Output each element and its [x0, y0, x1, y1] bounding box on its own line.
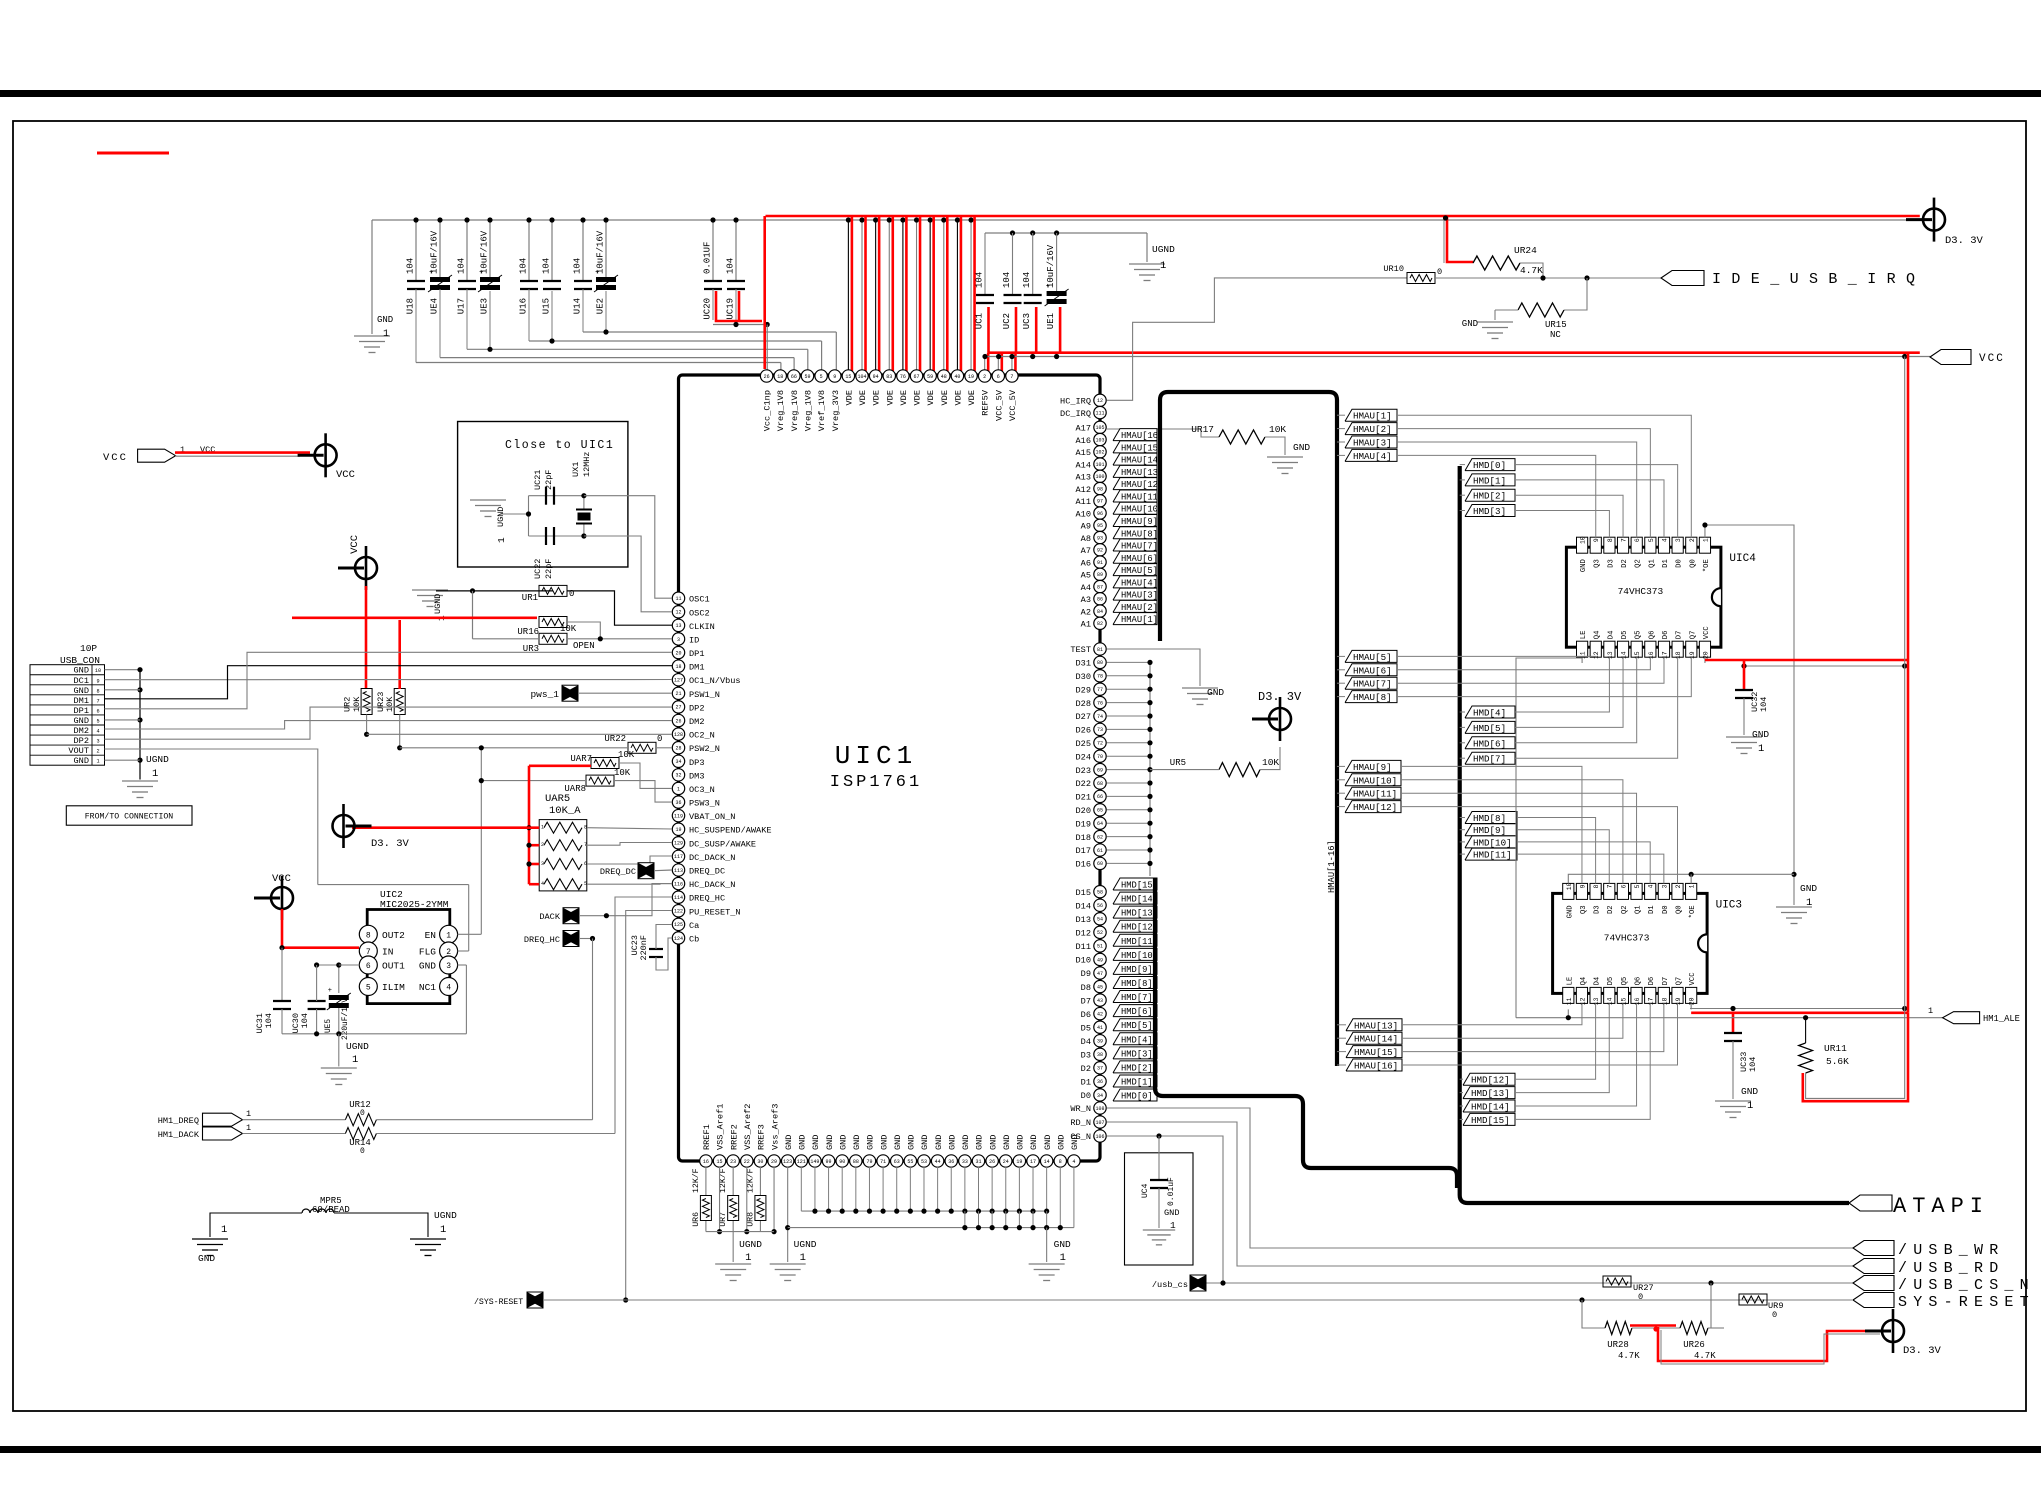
svg-text:2: 2 [983, 374, 986, 380]
svg-text:A4: A4 [1081, 583, 1091, 593]
svg-text:80: 80 [1097, 660, 1103, 666]
svg-text:HMD[9]: HMD[9] [1473, 825, 1506, 836]
svg-text:9: 9 [833, 374, 836, 380]
svg-text:15: 15 [1634, 651, 1641, 659]
svg-text:HMAU[15]: HMAU[15] [1121, 443, 1163, 453]
svg-text:2: 2 [1675, 884, 1682, 888]
svg-text:1: 1 [1928, 1006, 1933, 1016]
svg-text:99: 99 [826, 1159, 832, 1165]
svg-text:UGND: UGND [433, 594, 443, 614]
svg-text:PSW2_N: PSW2_N [689, 744, 720, 754]
svg-text:149: 149 [810, 1159, 819, 1165]
svg-text:UGND: UGND [739, 1239, 762, 1250]
svg-text:GND: GND [74, 756, 89, 766]
svg-text:DM3: DM3 [689, 771, 704, 781]
svg-text:DM2: DM2 [689, 717, 704, 727]
svg-text:13: 13 [1593, 997, 1600, 1005]
svg-text:D14: D14 [1076, 901, 1091, 911]
svg-text:UR15: UR15 [1545, 320, 1567, 330]
svg-text:UR26: UR26 [1683, 1340, 1705, 1350]
svg-text:D2: D2 [1081, 1064, 1091, 1074]
svg-text:22pF: 22pF [544, 559, 554, 579]
svg-text:FROM/TO CONNECTION: FROM/TO CONNECTION [85, 812, 174, 822]
svg-text:D28: D28 [1076, 699, 1091, 709]
svg-text:OSC1: OSC1 [689, 595, 710, 605]
svg-text:HMAU[2]: HMAU[2] [1353, 424, 1392, 435]
svg-text:Q4: Q4 [1594, 631, 1602, 640]
svg-text:UR6: UR6 [692, 1212, 701, 1227]
svg-text:GND: GND [1293, 442, 1310, 453]
svg-text:0: 0 [657, 734, 662, 744]
svg-text:HMAU[14]: HMAU[14] [1354, 1034, 1398, 1045]
svg-text:DM1: DM1 [689, 663, 704, 673]
svg-text:DACK: DACK [539, 912, 560, 922]
svg-text:VSS_Aref1: VSS_Aref1 [716, 1104, 726, 1150]
svg-text:49: 49 [1097, 957, 1103, 963]
svg-text:Q0: Q0 [1676, 905, 1684, 914]
svg-text:Vref_1V8: Vref_1V8 [817, 390, 827, 431]
svg-text:PU_RESET_N: PU_RESET_N [689, 907, 741, 917]
svg-text:HMD[13]: HMD[13] [1121, 909, 1158, 919]
svg-text:D0: D0 [1676, 559, 1684, 568]
svg-text:78: 78 [1097, 674, 1103, 680]
svg-text:D23: D23 [1076, 766, 1091, 776]
svg-text:11: 11 [1566, 997, 1573, 1005]
svg-text:0: 0 [1772, 1310, 1777, 1320]
svg-text:1: 1 [496, 537, 507, 543]
svg-text:6: 6 [366, 962, 371, 971]
svg-text:A6: A6 [1081, 558, 1091, 568]
svg-text:3: 3 [677, 637, 680, 643]
svg-text:12MHz: 12MHz [582, 451, 592, 477]
svg-text:1: 1 [1702, 538, 1709, 542]
svg-text:6: 6 [584, 861, 587, 867]
svg-text:A11: A11 [1076, 497, 1091, 507]
svg-text:UR2: UR2 [343, 697, 353, 712]
svg-text:DREQ_HC: DREQ_HC [689, 894, 725, 904]
svg-text:GND: GND [811, 1135, 821, 1150]
svg-text:VDE: VDE [940, 390, 950, 405]
svg-text:HM1_ALE: HM1_ALE [1983, 1014, 2020, 1024]
svg-text:HC_IRQ: HC_IRQ [1060, 397, 1091, 407]
svg-text:GND: GND [1566, 905, 1574, 918]
svg-text:pws_1: pws_1 [530, 689, 559, 700]
svg-text:D6: D6 [1081, 1010, 1091, 1020]
svg-text:VSS_Aref2: VSS_Aref2 [743, 1104, 753, 1150]
svg-text:GND: GND [1029, 1135, 1039, 1150]
svg-text:10K: 10K [560, 624, 577, 634]
svg-text:94: 94 [873, 374, 879, 380]
svg-text:LE: LE [1566, 977, 1574, 986]
svg-text:60/BEAD: 60/BEAD [312, 1205, 350, 1215]
svg-text:HMAU[12]: HMAU[12] [1353, 802, 1397, 813]
svg-text:D16: D16 [1076, 860, 1091, 870]
svg-text:7: 7 [584, 842, 587, 848]
svg-text:76: 76 [900, 374, 906, 380]
svg-text:8: 8 [96, 688, 99, 694]
svg-text:GND: GND [975, 1135, 985, 1150]
svg-text:42: 42 [1097, 1011, 1103, 1017]
svg-text:/USB_RD: /USB_RD [1898, 1260, 2004, 1277]
svg-text:HMAU[16]: HMAU[16] [1354, 1061, 1398, 1072]
svg-text:UGND: UGND [434, 1210, 457, 1221]
svg-text:HMAU[3]: HMAU[3] [1121, 591, 1158, 601]
svg-text:3: 3 [446, 962, 451, 971]
svg-text:Close to UIC1: Close to UIC1 [505, 439, 614, 452]
svg-text:14: 14 [1621, 651, 1628, 659]
svg-text:Ca: Ca [689, 921, 699, 931]
svg-text:95: 95 [1097, 523, 1103, 529]
svg-text:1: 1 [246, 1109, 251, 1119]
svg-text:D5: D5 [1607, 977, 1615, 986]
svg-text:5: 5 [820, 374, 823, 380]
svg-text:GND: GND [377, 315, 393, 325]
svg-text:0: 0 [1437, 267, 1442, 277]
svg-text:VCC: VCC [1703, 626, 1711, 640]
svg-text:51: 51 [1097, 944, 1103, 950]
svg-text:DP2: DP2 [74, 736, 89, 746]
svg-text:UE2: UE2 [596, 298, 606, 314]
svg-text:29: 29 [771, 1159, 777, 1165]
svg-text:104: 104 [542, 258, 552, 274]
svg-text:D1: D1 [1081, 1078, 1091, 1088]
svg-text:GND: GND [74, 686, 89, 696]
svg-text:*OE: *OE [1703, 559, 1711, 572]
svg-text:58: 58 [1097, 890, 1103, 896]
svg-text:Cb: Cb [689, 934, 699, 944]
svg-text:1: 1 [1060, 1252, 1066, 1264]
svg-text:20: 20 [1689, 997, 1696, 1005]
svg-text:HMD[3]: HMD[3] [1473, 506, 1506, 517]
svg-text:Vreg_3V3: Vreg_3V3 [831, 390, 841, 431]
svg-text:92: 92 [1097, 548, 1103, 554]
svg-text:73: 73 [1097, 727, 1103, 733]
svg-text:1: 1 [96, 759, 99, 765]
svg-text:66: 66 [1097, 794, 1103, 800]
svg-text:113: 113 [674, 868, 683, 874]
svg-text:97: 97 [1097, 499, 1103, 505]
svg-text:GND: GND [1800, 883, 1817, 894]
svg-text:Vcc_C1np: Vcc_C1np [763, 390, 773, 431]
svg-text:DC_IRQ: DC_IRQ [1060, 409, 1091, 419]
svg-text:DP1: DP1 [74, 706, 89, 716]
svg-text:UE5: UE5 [325, 1019, 333, 1033]
svg-text:12: 12 [1097, 398, 1103, 404]
svg-text:121: 121 [797, 1159, 806, 1165]
svg-text:VDE: VDE [953, 390, 963, 405]
svg-text:ID: ID [689, 635, 699, 645]
svg-text:HMAU[15]: HMAU[15] [1354, 1047, 1398, 1058]
svg-text:+: + [328, 987, 332, 995]
svg-text:D3: D3 [1607, 559, 1615, 568]
svg-text:GND: GND [893, 1135, 903, 1150]
svg-text:D0: D0 [1662, 905, 1670, 914]
svg-text:10: 10 [1566, 882, 1573, 890]
svg-text:U18: U18 [406, 298, 416, 314]
svg-text:3: 3 [1661, 884, 1668, 888]
svg-text:D5: D5 [1621, 631, 1629, 640]
svg-text:UR10: UR10 [1383, 264, 1404, 274]
svg-text:GND: GND [1580, 559, 1588, 572]
svg-text:1: 1 [246, 1123, 251, 1133]
svg-text:122: 122 [674, 909, 683, 915]
svg-text:HMAU[9]: HMAU[9] [1121, 517, 1158, 527]
svg-text:VCC_5V: VCC_5V [1008, 389, 1018, 421]
svg-text:HMAU[1]: HMAU[1] [1121, 615, 1158, 625]
svg-text:14: 14 [1607, 997, 1614, 1005]
svg-text:71: 71 [880, 1159, 886, 1165]
svg-text:HMD[4]: HMD[4] [1473, 708, 1506, 719]
svg-text:8: 8 [366, 931, 371, 940]
svg-text:VDE: VDE [872, 390, 882, 405]
svg-text:A2: A2 [1081, 607, 1091, 617]
svg-text:43: 43 [1097, 998, 1103, 1004]
svg-text:10K: 10K [352, 696, 362, 712]
svg-text:26: 26 [675, 718, 681, 724]
svg-text:UAR7: UAR7 [570, 754, 592, 764]
svg-text:D3: D3 [1594, 905, 1602, 914]
svg-text:1: 1 [677, 786, 680, 792]
svg-text:56: 56 [1097, 903, 1103, 909]
svg-text:3: 3 [1675, 538, 1682, 542]
svg-text:TEST: TEST [1070, 645, 1091, 655]
svg-text:18: 18 [1661, 997, 1668, 1005]
svg-text:8: 8 [1593, 884, 1600, 888]
svg-text:26: 26 [989, 1159, 995, 1165]
svg-text:16: 16 [703, 1159, 709, 1165]
svg-text:UC1: UC1 [975, 313, 985, 329]
svg-text:17: 17 [1648, 997, 1655, 1005]
svg-text:36: 36 [1097, 1079, 1103, 1085]
svg-text:D6: D6 [1648, 977, 1656, 986]
svg-text:A13: A13 [1076, 473, 1091, 483]
svg-text:74VHC373: 74VHC373 [1618, 586, 1664, 597]
svg-text:4: 4 [1662, 538, 1669, 542]
svg-text:D5: D5 [1081, 1023, 1091, 1033]
svg-text:1: 1 [1758, 743, 1764, 755]
svg-text:D7: D7 [1676, 631, 1684, 640]
svg-text:Q3: Q3 [1580, 905, 1588, 914]
svg-text:VBAT_ON_N: VBAT_ON_N [689, 812, 735, 822]
svg-text:8: 8 [1607, 538, 1614, 542]
svg-text:D19: D19 [1076, 819, 1091, 829]
svg-text:HMAU[5]: HMAU[5] [1353, 652, 1392, 663]
svg-text:220nF: 220nF [639, 935, 649, 961]
svg-text:D10: D10 [1076, 956, 1091, 966]
svg-text:U14: U14 [573, 298, 583, 314]
svg-text:HMD[14]: HMD[14] [1471, 1102, 1510, 1113]
svg-text:D17: D17 [1076, 846, 1091, 856]
svg-text:A14: A14 [1076, 460, 1091, 470]
svg-text:GND: GND [798, 1135, 808, 1150]
svg-text:18: 18 [777, 374, 783, 380]
svg-text:A1: A1 [1081, 620, 1091, 630]
svg-text:SYS-RESET: SYS-RESET [1898, 1294, 2035, 1311]
svg-text:19: 19 [968, 374, 974, 380]
svg-text:0.01UF: 0.01UF [703, 242, 713, 274]
svg-text:3: 3 [541, 861, 544, 867]
svg-text:HMAU[13]: HMAU[13] [1121, 468, 1163, 478]
svg-text:1: 1 [152, 768, 158, 780]
svg-text:HMAU[11]: HMAU[11] [1353, 789, 1397, 800]
svg-text:UC2: UC2 [1002, 313, 1012, 329]
svg-text:HMAU[7]: HMAU[7] [1121, 542, 1158, 552]
svg-text:86: 86 [1097, 597, 1103, 603]
svg-text:A9: A9 [1081, 522, 1091, 532]
svg-text:22pF: 22pF [544, 470, 554, 490]
svg-text:GND: GND [1002, 1135, 1012, 1150]
svg-text:119: 119 [674, 813, 683, 819]
svg-text:63: 63 [894, 1159, 900, 1165]
svg-text:22: 22 [744, 1159, 750, 1165]
svg-text:4: 4 [446, 984, 451, 993]
svg-text:104: 104 [406, 258, 416, 274]
svg-text:A15: A15 [1076, 448, 1091, 458]
svg-text:PSW1_N: PSW1_N [689, 690, 720, 700]
svg-text:61: 61 [1097, 848, 1103, 854]
svg-text:10K: 10K [1262, 757, 1279, 768]
svg-text:GND: GND [852, 1135, 862, 1150]
svg-text:DP3: DP3 [689, 758, 704, 768]
svg-text:VDE: VDE [926, 390, 936, 405]
svg-text:DM2: DM2 [74, 726, 89, 736]
svg-text:21: 21 [675, 691, 681, 697]
svg-text:124: 124 [674, 936, 683, 942]
svg-text:13: 13 [1607, 651, 1614, 659]
svg-text:VDE: VDE [858, 390, 868, 405]
svg-text:12K/F: 12K/F [691, 1168, 701, 1193]
svg-text:68: 68 [1097, 781, 1103, 787]
svg-text:DREQ_DC: DREQ_DC [600, 867, 636, 877]
svg-text:10uF/16V: 10uF/16V [480, 230, 490, 274]
svg-text:19: 19 [1689, 651, 1696, 659]
svg-text:FLG: FLG [419, 947, 436, 958]
svg-text:62: 62 [1097, 834, 1103, 840]
svg-text:125: 125 [674, 922, 683, 928]
svg-text:88: 88 [853, 1159, 859, 1165]
svg-text:Q4: Q4 [1580, 977, 1588, 986]
svg-text:36: 36 [675, 800, 681, 806]
svg-text:87: 87 [1097, 584, 1103, 590]
svg-text:53: 53 [921, 1159, 927, 1165]
svg-text:UIC4: UIC4 [1729, 553, 1756, 565]
svg-text:8: 8 [584, 825, 587, 831]
svg-text:47: 47 [1097, 971, 1103, 977]
svg-text:D11: D11 [1076, 942, 1091, 952]
svg-text:14: 14 [1044, 1159, 1050, 1165]
svg-text:34: 34 [1097, 1093, 1103, 1099]
svg-text:19: 19 [1675, 997, 1682, 1005]
svg-text:UC4: UC4 [1141, 1183, 1150, 1198]
svg-text:31: 31 [975, 1159, 981, 1165]
svg-text:20: 20 [675, 650, 681, 656]
svg-text:UE4: UE4 [430, 298, 440, 314]
svg-text:HC_DACK_N: HC_DACK_N [689, 880, 735, 890]
svg-text:D1: D1 [1648, 905, 1656, 914]
svg-text:UC20: UC20 [703, 298, 713, 320]
svg-text:HMAU[10]: HMAU[10] [1121, 505, 1163, 515]
svg-text:HMD[0]: HMD[0] [1121, 1092, 1153, 1102]
svg-text:DREQ_DC: DREQ_DC [689, 867, 725, 877]
svg-text:/USB_CS_N: /USB_CS_N [1898, 1277, 2035, 1294]
svg-text:D21: D21 [1076, 793, 1091, 803]
svg-text:D8: D8 [1081, 983, 1091, 993]
svg-text:10uF/16V: 10uF/16V [430, 230, 440, 274]
svg-text:59: 59 [927, 374, 933, 380]
svg-text:HMD[9]: HMD[9] [1121, 965, 1153, 975]
svg-text:HMD[15]: HMD[15] [1471, 1115, 1510, 1126]
svg-text:A5: A5 [1081, 571, 1091, 581]
svg-text:67: 67 [914, 374, 920, 380]
svg-text:Q6: Q6 [1635, 977, 1643, 986]
svg-text:104: 104 [457, 258, 467, 274]
svg-text:D6: D6 [1662, 631, 1670, 640]
svg-text:*OE: *OE [1689, 905, 1697, 918]
svg-text:U17: U17 [457, 298, 467, 314]
svg-text:7: 7 [1621, 538, 1628, 542]
svg-text:37: 37 [1097, 1066, 1103, 1072]
svg-text:UR7: UR7 [719, 1212, 728, 1227]
svg-text:30: 30 [757, 1159, 763, 1165]
svg-text:UE3: UE3 [480, 298, 490, 314]
svg-text:GND: GND [947, 1135, 957, 1150]
svg-text:Q2: Q2 [1621, 905, 1629, 914]
svg-text:HMAU[2]: HMAU[2] [1121, 603, 1158, 613]
svg-text:40: 40 [954, 374, 960, 380]
svg-text:HMD[10]: HMD[10] [1121, 951, 1158, 961]
svg-text:OC2_N: OC2_N [689, 731, 715, 741]
svg-text:4: 4 [96, 729, 99, 735]
svg-text:104: 104 [1022, 272, 1032, 288]
svg-text:1: 1 [1160, 260, 1166, 272]
svg-text:5: 5 [366, 984, 371, 993]
svg-text:UR8: UR8 [746, 1212, 755, 1227]
svg-text:GND: GND [74, 716, 89, 726]
svg-text:17: 17 [1662, 651, 1669, 659]
svg-text:HMD[12]: HMD[12] [1471, 1075, 1510, 1086]
svg-text:32: 32 [675, 773, 681, 779]
svg-text:D0: D0 [1081, 1091, 1091, 1101]
svg-text:D7: D7 [1081, 996, 1091, 1006]
svg-text:HMAU[13]: HMAU[13] [1354, 1020, 1398, 1031]
svg-text:UX1: UX1 [571, 462, 581, 477]
svg-text:EN: EN [425, 930, 436, 941]
svg-text:26: 26 [764, 374, 770, 380]
svg-text:VCC_5V: VCC_5V [994, 389, 1004, 421]
svg-text:8: 8 [1059, 1159, 1062, 1165]
svg-text:HMD[12]: HMD[12] [1121, 923, 1158, 933]
svg-text:UR17: UR17 [1191, 424, 1214, 435]
svg-text:UR27: UR27 [1633, 1283, 1654, 1293]
svg-text:70: 70 [1097, 754, 1103, 760]
svg-text:D3. 3V: D3. 3V [1903, 1345, 1942, 1357]
svg-text:52: 52 [1097, 930, 1103, 936]
svg-text:4.7K: 4.7K [1694, 1351, 1716, 1361]
svg-text:34: 34 [675, 759, 681, 765]
svg-text:UGND: UGND [794, 1239, 817, 1250]
svg-text:GND: GND [825, 1135, 835, 1150]
svg-text:19: 19 [1016, 1159, 1022, 1165]
svg-text:UGND: UGND [346, 1041, 369, 1052]
svg-text:HMD[6]: HMD[6] [1473, 738, 1506, 749]
svg-text:10: 10 [95, 668, 101, 674]
svg-text:DREQ_HC: DREQ_HC [524, 935, 560, 945]
svg-text:41: 41 [1097, 1025, 1103, 1031]
svg-text:HMAU[9]: HMAU[9] [1353, 762, 1392, 773]
svg-text:VCC: VCC [336, 469, 355, 481]
svg-text:4: 4 [1072, 1159, 1075, 1165]
svg-text:VDE: VDE [913, 390, 923, 405]
